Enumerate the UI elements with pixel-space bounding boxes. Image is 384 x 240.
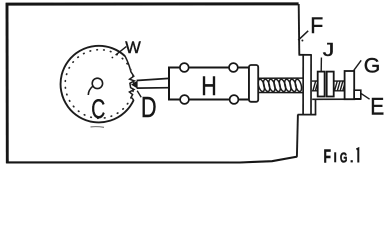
enclosure right wall upper [298, 4, 301, 55]
smudge under wheel [91, 126, 105, 129]
bolt circle top left [180, 63, 189, 72]
end piece E [354, 90, 361, 99]
leader G [353, 60, 361, 71]
dot near F leader [301, 40, 303, 42]
caption FIG.1 period [351, 160, 353, 162]
wall plate F left edge [302, 55, 304, 114]
housing end cap [249, 65, 258, 102]
caption FIG.1 digit 1 [356, 149, 358, 163]
svg-text:J: J [323, 40, 335, 60]
caption FIG.1 I [334, 152, 336, 162]
hub symbol rho tail [88, 86, 93, 95]
svg-text:E: E [370, 94, 384, 121]
svg-text:C: C [91, 93, 105, 124]
leader E [361, 93, 370, 99]
svg-text:F: F [310, 13, 323, 38]
wheel dotted inner circle [65, 50, 134, 119]
housing H body [169, 68, 249, 100]
bolt circle top right [229, 63, 238, 72]
svg-text:G: G [340, 150, 348, 166]
enclosure border left [6, 3, 9, 163]
spring coils [257, 79, 303, 93]
spring top line [258, 77, 302, 79]
bracket leg [315, 99, 317, 114]
tool rod bottom line [137, 87, 169, 89]
nut J second block [327, 72, 334, 97]
tool rod top line [137, 78, 169, 80]
svg-text:D: D [141, 92, 157, 124]
wall step line at plate bottom [298, 114, 317, 116]
wall plate F right edge [310, 55, 312, 114]
grinding wheel W rim [61, 46, 134, 123]
knob G block [345, 71, 355, 99]
bolt circle bottom right [230, 95, 239, 104]
leader F [298, 31, 308, 40]
enclosure border top [6, 2, 299, 5]
svg-text:H: H [201, 71, 217, 101]
svg-text:G: G [364, 53, 381, 78]
tool point D [132, 81, 137, 88]
svg-text:F: F [324, 145, 332, 166]
bracket base bar under nuts [312, 98, 361, 100]
hub symbol rho circle [92, 78, 102, 88]
leader D [137, 91, 141, 98]
screw shaft segment between J and G [334, 81, 345, 91]
nut J first block [318, 72, 325, 97]
leader J [320, 58, 322, 72]
bolt circle bottom left [180, 95, 189, 104]
leader W tip dot [112, 57, 114, 59]
leader W [116, 47, 127, 56]
enclosure border bottom [6, 157, 297, 163]
screw shaft segment between plate and J [312, 81, 318, 91]
wheel rim dressed zigzag [125, 56, 134, 100]
wall plate F top edge [299, 54, 312, 56]
enclosure right wall lower [297, 115, 298, 157]
spring bottom line [258, 92, 302, 94]
svg-text:W: W [125, 38, 141, 57]
